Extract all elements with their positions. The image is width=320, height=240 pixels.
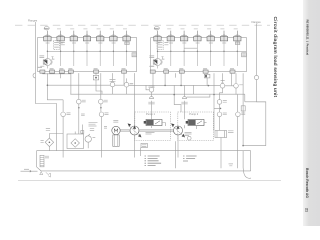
svg-text:Pump 2: Pump 2 <box>189 112 198 116</box>
svg-text:RE 66055/02.11 | Practical: RE 66055/02.11 | Practical <box>305 20 309 56</box>
svg-text:Circuit diagram load sensing u: Circuit diagram load sensing unit <box>272 17 278 98</box>
svg-text:Flanges: Flanges <box>28 19 38 23</box>
svg-text:Flanges: Flanges <box>252 20 262 24</box>
svg-text:21: 21 <box>305 208 309 212</box>
svg-text:Bosch Rexroth AG: Bosch Rexroth AG <box>305 168 309 198</box>
svg-text:Pump 1: Pump 1 <box>146 112 155 116</box>
